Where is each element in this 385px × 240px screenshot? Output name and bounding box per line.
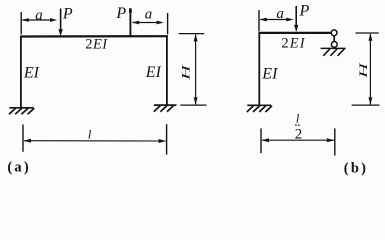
load P (b) : shaft bbox=[295, 6, 297, 27]
label l/2 fraction (b) : dashed bar bbox=[295, 124, 297, 126]
load P left (a) : arrowhead bbox=[58, 29, 62, 36]
dimension H (a) : bottom tick bbox=[180, 104, 206, 106]
dimension a left (a) : extension line bbox=[20, 12, 22, 34]
load P (b) : arrowhead bbox=[294, 25, 298, 32]
svg-text:l: l bbox=[296, 111, 300, 125]
load P right (a) : shaft bbox=[129, 8, 131, 36]
dimension H (b) : line + arrows bbox=[369, 34, 371, 105]
dimension l (a) : right extension bbox=[166, 124, 168, 154]
svg-text:2EI: 2EI bbox=[85, 37, 108, 53]
dimension H (b) : top tick bbox=[356, 32, 379, 34]
dimension a (b) : extension line bbox=[258, 10, 260, 31]
dimension H (a) : top tick bbox=[179, 33, 205, 35]
roller link support (b) : hatches bbox=[323, 49, 344, 56]
dimension l/2 (b) : left extension bbox=[260, 128, 262, 153]
dimension a (b) : line + arrows bbox=[260, 19, 290, 21]
fixed support (b) bbox=[247, 105, 272, 112]
svg-text:H: H bbox=[179, 64, 192, 81]
roller link support (b) : upper hinge circle bbox=[331, 30, 337, 36]
right column EI (a) bbox=[166, 35, 168, 105]
svg-text:EI: EI bbox=[261, 65, 278, 82]
column EI (b) bbox=[258, 33, 260, 105]
roller link support (b) : link bbox=[333, 35, 335, 41]
svg-text:P: P bbox=[299, 2, 310, 19]
svg-text:P: P bbox=[115, 5, 126, 22]
load P left (a) : shaft bbox=[60, 9, 62, 32]
dimension a right (a) : extension line bbox=[167, 13, 169, 34]
svg-text:(b): (b) bbox=[344, 161, 368, 177]
fixed support right (a) bbox=[154, 105, 177, 112]
dimension l/2 (b) : line + arrows bbox=[262, 139, 334, 141]
svg-text:a: a bbox=[276, 6, 284, 22]
dimension H (a) : line + arrows bbox=[195, 34, 197, 104]
dimension l (a) : left extension bbox=[22, 124, 24, 151]
fixed support left (a) bbox=[9, 108, 34, 114]
svg-text:(a): (a) bbox=[7, 159, 31, 175]
svg-text:P: P bbox=[62, 6, 73, 23]
svg-text:a: a bbox=[35, 7, 43, 23]
beam 2EI (b) bbox=[258, 32, 331, 34]
svg-text:H: H bbox=[356, 62, 369, 79]
left column EI (a) bbox=[20, 36, 22, 108]
dimension l/2 (b) : right extension bbox=[334, 128, 336, 155]
dimension a left (a) : line + arrows bbox=[22, 19, 53, 21]
beam 2EI (a) bbox=[20, 35, 167, 37]
svg-text:EI: EI bbox=[145, 64, 162, 81]
roller link support (b) : ground line bbox=[321, 47, 346, 49]
dimension H (b) : bottom tick bbox=[352, 104, 380, 106]
svg-text:EI: EI bbox=[23, 65, 40, 82]
dimension a right (a) : line + arrows bbox=[133, 22, 160, 24]
dimension l (a) : line + arrows bbox=[24, 140, 166, 142]
svg-text:l: l bbox=[88, 127, 92, 142]
load P right (a) : top blob bbox=[129, 9, 132, 13]
svg-text:2: 2 bbox=[295, 127, 303, 143]
svg-text:2EI: 2EI bbox=[281, 36, 305, 52]
roller link support (b) : lower hinge circle bbox=[331, 42, 337, 48]
svg-text:a: a bbox=[145, 6, 153, 22]
